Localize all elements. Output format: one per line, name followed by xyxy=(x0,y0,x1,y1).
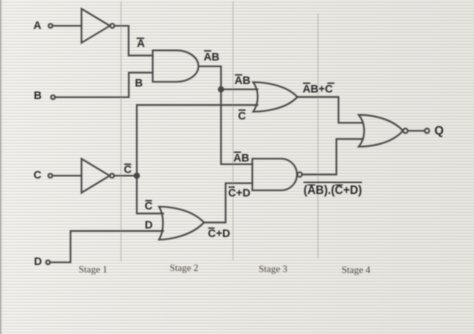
wire Cbar from U3 to node C xyxy=(114,175,137,177)
NOR U7 bubble xyxy=(403,129,408,134)
svg-text:C: C xyxy=(124,164,132,176)
svg-text:B: B xyxy=(34,90,42,102)
svg-text:(AB).(C+D): (AB).(C+D) xyxy=(304,185,363,197)
svg-text:A: A xyxy=(137,38,145,50)
svg-text:C: C xyxy=(34,170,42,182)
svg-text:D: D xyxy=(145,220,153,232)
svg-text:D: D xyxy=(34,256,42,268)
wire OR2 output to NAND input xyxy=(204,183,252,222)
output terminal Q xyxy=(425,129,430,134)
inverter U3 (NOT C) xyxy=(82,159,110,193)
svg-text:Stage 3: Stage 3 xyxy=(259,264,288,275)
inverter U1 (NOT A) xyxy=(82,9,110,43)
svg-text:AB: AB xyxy=(235,75,251,87)
wire OR1 output to NOR input xyxy=(297,97,362,123)
wire Cbar down to OR2 input xyxy=(137,176,163,214)
wire AND output to node AB xyxy=(199,66,253,164)
input terminal C xyxy=(48,174,52,178)
wire D to OR2 input xyxy=(50,231,163,262)
wire NOR output to terminal Q xyxy=(408,130,425,132)
wire C to inverter xyxy=(52,175,81,177)
node Cbar junction dot xyxy=(135,173,140,178)
stage divider 1 xyxy=(120,2,122,261)
svg-text:Q: Q xyxy=(434,123,443,137)
svg-text:AB: AB xyxy=(204,51,220,63)
inverter U1 bubble xyxy=(110,24,114,28)
svg-text:C: C xyxy=(238,110,246,122)
node AB junction dot xyxy=(219,87,224,92)
AND gate U2 (Abar.B) xyxy=(153,50,199,81)
input terminal D xyxy=(46,260,50,264)
NAND U6 bubble xyxy=(297,172,302,177)
NOR gate U7 (output Q) xyxy=(359,115,403,147)
svg-text:Stage 2: Stage 2 xyxy=(170,263,199,274)
OR gate U4 (Abar.B + Cbar) xyxy=(253,82,297,112)
stage divider 2 xyxy=(232,2,234,260)
wire node AB to OR1 input xyxy=(221,88,258,90)
wire Cbar up to OR1 input xyxy=(137,105,258,176)
svg-text:B: B xyxy=(135,78,143,90)
wire Abar from U1 to AND input xyxy=(114,26,152,56)
wire B to AND input xyxy=(55,73,153,98)
inverter U3 bubble xyxy=(110,174,114,178)
input terminal B xyxy=(51,95,55,99)
svg-text:C+D: C+D xyxy=(208,228,230,240)
stage divider 3 xyxy=(317,14,319,258)
NAND gate U6 ((Abar.B).(Cbar+D)) xyxy=(252,159,297,191)
svg-text:Stage 1: Stage 1 xyxy=(79,265,108,276)
svg-text:A: A xyxy=(33,20,41,32)
svg-text:Stage 4: Stage 4 xyxy=(342,265,371,276)
OR gate U5 (Cbar + D) xyxy=(159,207,204,240)
svg-text:C+D: C+D xyxy=(228,187,250,199)
wire NAND output to NOR input xyxy=(302,139,363,175)
input terminal A xyxy=(49,24,53,28)
svg-text:AB+C: AB+C xyxy=(303,83,333,95)
svg-text:C: C xyxy=(145,201,153,213)
svg-text:AB: AB xyxy=(233,152,249,164)
wire A to inverter xyxy=(53,25,82,27)
